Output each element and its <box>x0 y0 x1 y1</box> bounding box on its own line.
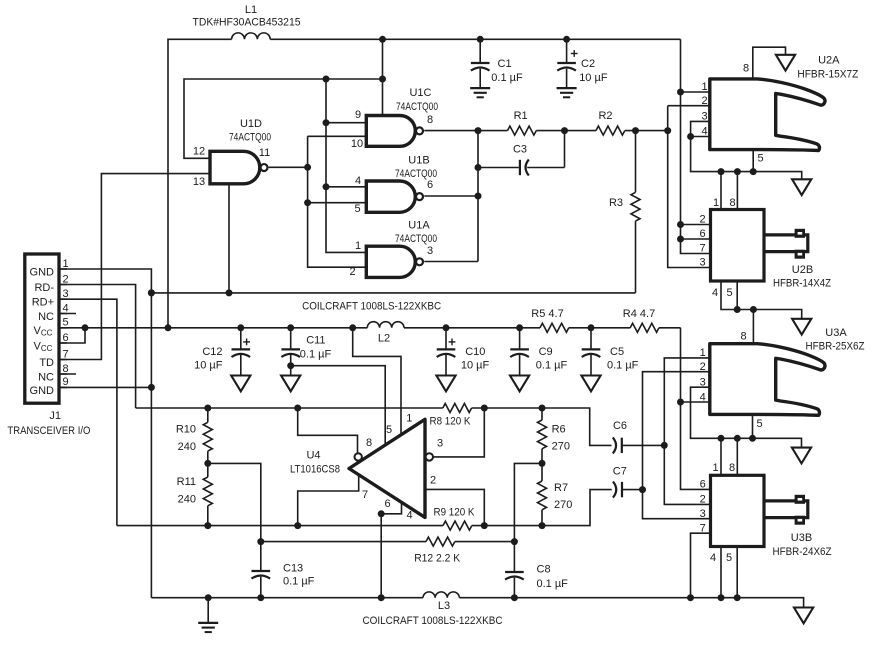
svg-text:2: 2 <box>62 273 68 285</box>
svg-text:1: 1 <box>355 240 361 252</box>
svg-text:10 µF: 10 µF <box>461 360 490 372</box>
gate U1D 74ACTQ00 <box>193 118 271 188</box>
wire: C11 tap to U4 pin 5 (latch) <box>287 362 385 446</box>
resistor R2 <box>596 110 625 135</box>
svg-text:U3A: U3A <box>825 327 847 339</box>
svg-text:5: 5 <box>726 552 732 564</box>
svg-text:C13: C13 <box>283 563 303 575</box>
ground (arrow) below U2B <box>792 319 811 335</box>
svg-text:U1B: U1B <box>408 155 429 167</box>
wire: inverting line (RD- / R8 / C6) <box>136 405 612 446</box>
wire: U4 pin 3 input <box>433 408 484 457</box>
svg-text:R8 120 K: R8 120 K <box>430 416 472 428</box>
svg-text:10 µF: 10 µF <box>579 72 608 84</box>
wire: U2A pin8 to ground <box>753 47 786 79</box>
resistor R11 240 <box>177 463 213 525</box>
svg-text:11: 11 <box>259 147 270 159</box>
svg-text:NC: NC <box>38 311 54 323</box>
wire: U1C power tap <box>382 39 384 115</box>
svg-text:1: 1 <box>712 462 718 474</box>
svg-text:6: 6 <box>62 332 68 344</box>
svg-text:270: 270 <box>552 441 570 453</box>
svg-text:GND: GND <box>30 266 55 278</box>
comparator U4 LT1016CS8 <box>290 413 443 522</box>
wire: non-inverting line (RD+ / R9 / C7) <box>117 490 612 529</box>
svg-text:8: 8 <box>743 63 749 75</box>
svg-text:R4 4.7: R4 4.7 <box>623 308 655 320</box>
wire: VCC drop to U2A pin1, U2B pins 2,6,7 <box>677 39 711 253</box>
svg-text:10: 10 <box>351 138 363 150</box>
svg-text:1: 1 <box>713 197 719 209</box>
ground (arrow) rail right end <box>794 608 813 624</box>
wire: R10/R11 junction to R12/C13 node <box>204 460 260 542</box>
svg-text:HFBR-15X7Z: HFBR-15X7Z <box>797 68 858 80</box>
resistor R6 270 <box>538 408 570 463</box>
svg-text:0.1 µF: 0.1 µF <box>607 360 639 372</box>
svg-text:9: 9 <box>355 109 361 121</box>
svg-text:8: 8 <box>741 331 747 343</box>
svg-text:U4: U4 <box>306 450 320 462</box>
capacitor C10 10uF <box>437 328 490 376</box>
svg-text:2: 2 <box>349 266 355 278</box>
wire: J1 pin2 RD- down to comparator line <box>59 285 136 409</box>
wire: VCC rail from J1 pins 5,6 <box>59 324 681 343</box>
svg-text:8: 8 <box>427 114 433 126</box>
svg-text:240: 240 <box>178 441 196 453</box>
ground (arrow) C9 <box>510 376 529 392</box>
svg-text:5: 5 <box>354 203 360 215</box>
wire: L2 tap to U4 pin 1 <box>353 328 401 436</box>
wire: U4 pin 7 output <box>298 475 359 526</box>
svg-text:4: 4 <box>62 302 68 314</box>
svg-text:12: 12 <box>193 146 205 158</box>
resistor R4 <box>623 308 659 332</box>
svg-text:3: 3 <box>700 508 706 520</box>
svg-text:6: 6 <box>385 498 391 510</box>
wire: J1 pin7 TD to U1D pin 13 <box>59 174 210 360</box>
ground (arrow) C10 <box>436 376 455 392</box>
svg-text:5: 5 <box>62 317 68 329</box>
capacitor C2 <box>557 39 608 88</box>
capacitor C11 0.1uF <box>281 328 331 376</box>
wire: C7 to U3A pin2 and U3B pin3 <box>639 372 711 519</box>
svg-text:C12: C12 <box>202 346 222 358</box>
svg-text:8: 8 <box>729 197 735 209</box>
svg-text:U3B: U3B <box>791 532 812 544</box>
capacitor C9 0.1uF <box>510 328 567 376</box>
svg-text:0.1 µF: 0.1 µF <box>300 349 332 361</box>
fiber optic transmitter U2B HFBR-14X4Z <box>699 197 831 299</box>
resistor R9 120K <box>434 506 476 530</box>
svg-text:5: 5 <box>386 424 392 436</box>
svg-text:C7: C7 <box>613 466 627 478</box>
ground (arrow) below U2A <box>792 179 811 195</box>
svg-text:10 µF: 10 µF <box>194 360 223 372</box>
svg-text:2: 2 <box>699 214 705 226</box>
wire: U3A pin3,5 ground run to U3B pins 1,8 <box>691 387 802 475</box>
svg-text:74ACTQ00: 74ACTQ00 <box>395 233 437 245</box>
svg-text:5: 5 <box>756 418 762 430</box>
capacitor C1 <box>471 39 523 88</box>
resistor R10 240 <box>176 408 212 463</box>
ground (earth) for C2 <box>557 88 577 97</box>
wire: J1 pin9 GND <box>59 386 151 388</box>
svg-text:COILCRAFT 1008LS-122XKBC: COILCRAFT 1008LS-122XKBC <box>363 615 503 627</box>
inductor L2 <box>367 322 404 345</box>
resistor R12 2.2K <box>257 537 518 564</box>
wire: R6/R7 junction to R12/C8 node <box>514 460 545 542</box>
svg-text:7: 7 <box>62 348 68 360</box>
svg-text:R12 2.2 K: R12 2.2 K <box>414 553 461 565</box>
ground (earth) on rail <box>198 598 218 632</box>
svg-text:RD-: RD- <box>34 282 54 294</box>
svg-text:LT1016CS8: LT1016CS8 <box>290 463 340 475</box>
capacitor C3 <box>478 143 565 175</box>
svg-text:L1: L1 <box>245 4 257 16</box>
svg-text:R11: R11 <box>177 476 196 488</box>
wire: U1D ground tap to bias line <box>228 184 230 293</box>
svg-text:NC: NC <box>38 371 54 383</box>
svg-text:U1D: U1D <box>240 118 262 130</box>
svg-text:RD+: RD+ <box>32 297 54 309</box>
wire: U3B pins 4,5 to ground rail <box>721 547 737 598</box>
ground (arrow) C12 <box>231 376 250 392</box>
svg-text:6: 6 <box>699 228 705 240</box>
ground (arrow) below U3A <box>792 448 811 464</box>
inductor L1 <box>193 4 301 39</box>
svg-text:4: 4 <box>355 175 361 187</box>
capacitor C6 <box>613 420 665 453</box>
resistor R1 <box>508 110 537 135</box>
svg-text:74ACTQ00: 74ACTQ00 <box>396 101 438 113</box>
label COILCRAFT (L2) <box>302 301 441 313</box>
svg-text:7: 7 <box>362 489 368 501</box>
svg-text:C10: C10 <box>465 346 485 358</box>
wire: U4 pins 6,4 to ground rail <box>378 502 402 597</box>
svg-text:3: 3 <box>699 257 705 269</box>
svg-text:C6: C6 <box>613 420 627 432</box>
svg-text:TD: TD <box>39 357 54 369</box>
svg-text:2: 2 <box>701 95 707 107</box>
svg-text:HFBR-25X6Z: HFBR-25X6Z <box>806 341 865 353</box>
ground (earth) for C1 <box>470 88 490 97</box>
svg-text:0.1 µF: 0.1 µF <box>536 360 568 372</box>
capacitor C7 <box>613 466 643 498</box>
svg-text:1: 1 <box>700 347 706 359</box>
svg-text:8: 8 <box>62 363 68 375</box>
svg-text:TRANSCEIVER I/O: TRANSCEIVER I/O <box>7 425 90 437</box>
wire: U2B pins 4,5 to ground and U3A pin 8 <box>721 281 802 344</box>
svg-text:6: 6 <box>700 479 706 491</box>
svg-text:4: 4 <box>712 287 718 299</box>
svg-text:U2B: U2B <box>792 264 813 276</box>
svg-text:5: 5 <box>726 287 732 299</box>
svg-text:U2A: U2A <box>818 55 840 67</box>
svg-text:R10: R10 <box>176 424 196 436</box>
svg-text:0.1 µF: 0.1 µF <box>537 578 569 590</box>
svg-text:1: 1 <box>701 81 707 93</box>
svg-text:R3: R3 <box>609 197 623 209</box>
label TRANSCEIVER I/O <box>7 425 90 437</box>
svg-text:9: 9 <box>62 376 68 388</box>
svg-text:C1: C1 <box>498 58 512 70</box>
svg-text:C9: C9 <box>539 346 553 358</box>
svg-text:R6: R6 <box>552 424 566 436</box>
svg-text:0.1 µF: 0.1 µF <box>283 576 315 588</box>
svg-text:2: 2 <box>700 494 706 506</box>
svg-text:HFBR-24X6Z: HFBR-24X6Z <box>773 546 832 558</box>
wire: U4 pin 2 input <box>425 489 484 525</box>
svg-text:R7: R7 <box>554 482 568 494</box>
wire: U1D output to U1C pin10, U1B pin5, U1A pin2 <box>269 136 367 267</box>
svg-text:8: 8 <box>729 462 735 474</box>
wire: gate outputs joined <box>424 127 481 261</box>
svg-text:COILCRAFT 1008LS-122XKBC: COILCRAFT 1008LS-122XKBC <box>302 301 441 313</box>
ground (arrow) C11 <box>281 376 300 392</box>
svg-text:C8: C8 <box>537 564 551 576</box>
svg-text:7: 7 <box>699 243 705 255</box>
svg-text:C2: C2 <box>581 58 595 70</box>
svg-text:GND: GND <box>30 385 55 397</box>
svg-text:5: 5 <box>757 153 763 165</box>
gate U1A 74ACTQ00 <box>349 220 437 279</box>
svg-text:3: 3 <box>62 288 68 300</box>
wire: U4 pin 8 output <box>298 408 358 453</box>
svg-text:1: 1 <box>62 258 68 270</box>
svg-text:270: 270 <box>554 499 572 511</box>
wire: VCC to U3A pin4 and U3B pin6 <box>677 328 711 490</box>
svg-text:TDK#HF30ACB453215: TDK#HF30ACB453215 <box>193 17 301 29</box>
fiber optic receiver U3A HFBR-25X6Z <box>700 327 865 430</box>
svg-text:4: 4 <box>406 510 412 522</box>
svg-text:HFBR-14X4Z: HFBR-14X4Z <box>773 278 831 290</box>
resistor R3 <box>609 131 640 293</box>
wire: ground rail <box>151 594 803 607</box>
wire: U2A pins 3,4,5 ground run to U2B pins 1,8 <box>687 121 802 209</box>
capacitor C13 0.1uF <box>252 542 315 598</box>
svg-text:L3: L3 <box>438 600 450 612</box>
wire: J1 pin3 RD+ down to comparator line <box>59 299 117 525</box>
capacitor C12 10uF <box>194 328 250 376</box>
svg-text:C3: C3 <box>513 143 527 155</box>
label COILCRAFT (L3) <box>363 615 503 627</box>
wire: VCC up to L1 <box>168 39 232 328</box>
wire: J1 pin1 GND link down to ground rail <box>59 269 155 598</box>
inductor L3 <box>423 592 459 612</box>
wire: filtered VCC top rail <box>270 36 680 43</box>
svg-text:U1A: U1A <box>408 220 430 232</box>
resistor R7 270 <box>538 463 573 525</box>
svg-text:R9 120 K: R9 120 K <box>434 506 476 518</box>
wire: NAND input bus to U1C pin9, U1B pin4, U1A pin1 <box>323 79 367 252</box>
fiber optic transmitter U2A HFBR-15X7Z <box>701 55 858 165</box>
svg-text:J1: J1 <box>49 410 61 422</box>
wire: C3 to R1/R2 node <box>564 131 566 168</box>
svg-text:U1C: U1C <box>409 87 431 99</box>
svg-text:L2: L2 <box>378 333 390 345</box>
svg-text:3: 3 <box>437 438 443 450</box>
svg-text:2: 2 <box>430 475 436 487</box>
wire: R2 output to U2A pin2 and U2B pin3 <box>668 106 711 268</box>
svg-text:0.1 µF: 0.1 µF <box>491 72 523 84</box>
gate U1B 74ACTQ00 <box>354 155 437 216</box>
svg-text:4: 4 <box>710 552 716 564</box>
svg-text:R1: R1 <box>514 110 528 122</box>
svg-text:4: 4 <box>700 391 706 403</box>
capacitor C5 0.1uF <box>582 328 639 376</box>
svg-text:8: 8 <box>366 437 372 449</box>
connector J1 <box>25 254 76 403</box>
svg-text:2: 2 <box>700 361 706 373</box>
svg-text:6: 6 <box>427 179 433 191</box>
fiber optic receiver U3B HFBR-24X6Z <box>700 462 832 564</box>
svg-text:3: 3 <box>427 245 433 257</box>
gate U1C 74ACTQ00 <box>351 87 438 150</box>
wire: U1D feedback line (y=79) to pin 12 <box>184 76 386 159</box>
ground (arrow) at U2A pin8 <box>776 55 795 71</box>
capacitor C8 0.1uF <box>505 542 568 598</box>
wire: output line through R1,R2 <box>478 127 671 134</box>
svg-text:C5: C5 <box>610 346 624 358</box>
svg-text:1: 1 <box>406 413 412 425</box>
wire: NAND bias line to R3 <box>148 289 636 296</box>
wire: C6 to U3A pin1 and U3B pin2 <box>661 358 711 505</box>
wire: U3B pin 7 to ground rail <box>691 533 711 598</box>
svg-text:R5 4.7: R5 4.7 <box>531 308 563 320</box>
svg-text:C11: C11 <box>306 334 325 346</box>
svg-text:74ACTQ00: 74ACTQ00 <box>229 132 271 144</box>
svg-text:13: 13 <box>193 176 205 188</box>
resistor R8 120K <box>430 404 472 428</box>
ground (arrow) C5 <box>581 376 600 392</box>
label J1 <box>49 410 61 422</box>
resistor R5 <box>531 308 569 332</box>
svg-text:240: 240 <box>178 494 196 506</box>
svg-text:R2: R2 <box>598 110 612 122</box>
